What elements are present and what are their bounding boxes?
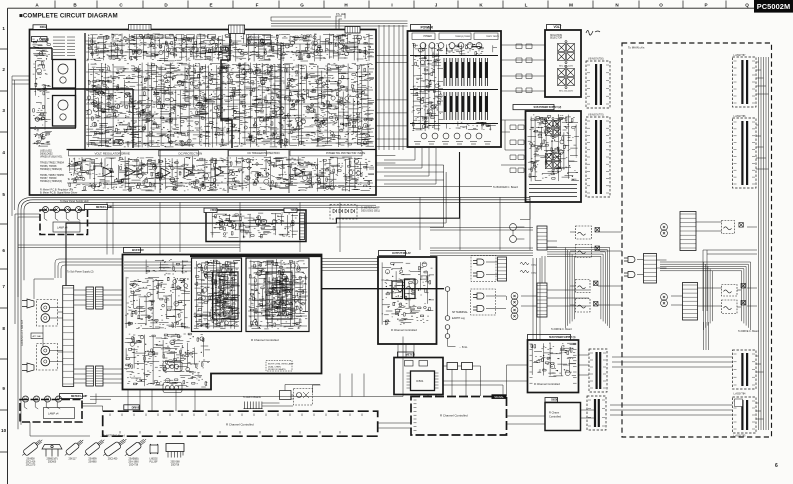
SUB POWER SUPPLY (1) label — [528, 335, 571, 340]
legend package drawing 6 (TO-3P) — [123, 437, 148, 459]
phone jack plug J2 — [22, 363, 34, 372]
wire: signal box risers — [398, 344, 414, 358]
drive sub-header VOLT REGULATOR DRIVE — [69, 151, 121, 156]
drive sub-header DC TRIGGER PROTECTION — [229, 151, 267, 156]
drive left bold sub-block TR605 stage — [53, 96, 76, 127]
relay-driver label FB501 — [204, 208, 217, 213]
wire: drive to power interconnect verticals — [379, 25, 403, 150]
svg-text:DC PROTECTION: DC PROTECTION — [179, 151, 203, 155]
wire: power to volt selector — [501, 45, 545, 91]
input logic cluster 2 dashed box — [471, 289, 496, 315]
svg-text:2SC2275: 2SC2275 — [26, 464, 36, 466]
buffer top heavy rail — [190, 255, 321, 258]
svg-text:P.S. LED: P.S. LED — [336, 13, 346, 16]
wire: buffer input bundle — [124, 262, 191, 271]
drive left bold sub-block TR601 stage — [53, 60, 76, 89]
svg-text:BUFFER: BUFFER — [132, 248, 144, 252]
bottom DRIVE block outline — [103, 411, 378, 436]
wire: terminal drops — [448, 291, 456, 346]
svg-text:5: 5 — [2, 192, 5, 197]
wire harness loop around right relay cluster — [660, 262, 751, 330]
connector CN L ASSY786 — [733, 118, 757, 188]
wire: bottom rail runs — [82, 337, 403, 412]
terminal strip mid lower — [537, 283, 547, 317]
drive inner row of trimmer label boxes — [134, 35, 216, 39]
svg-text:METER LAMP: METER LAMP — [71, 394, 88, 398]
svg-text:100Ω: 100Ω — [531, 265, 537, 267]
svg-text:PLL30F: PLL30F — [149, 461, 158, 463]
OUTPUT RELAY block outline — [378, 257, 437, 344]
legend package drawing 7 (photo coupler) — [150, 444, 158, 454]
svg-text:D501 D502 (SEL): D501 D502 (SEL) — [361, 209, 380, 212]
drive sub-header DC PROTECTION — [159, 151, 199, 156]
bottom meter lamp inner box — [44, 408, 75, 419]
wire: buffer to bottom drive drops — [128, 390, 195, 412]
BUFFER label — [124, 248, 141, 253]
terminal strip mid upper — [537, 226, 547, 250]
bottom DRIVE label — [124, 405, 140, 410]
terminal strip right B — [683, 283, 698, 321]
METER LAMP bottom block — [20, 400, 82, 423]
transformer T782 upper — [661, 224, 668, 237]
svg-text:To DRIVE C. Board: To DRIVE C. Board — [738, 330, 759, 333]
wire: mid feed rungs — [376, 165, 444, 180]
wire: bus drops to buffer and relays — [180, 202, 340, 252]
XLR plug P1 — [473, 259, 484, 265]
input jack sockets pair 2 — [41, 346, 50, 355]
XLR plug P6 — [624, 272, 635, 278]
SUB POWER SUPPLY (1) block outline — [528, 340, 579, 393]
svg-text:1: 1 — [2, 26, 5, 31]
svg-text:2SC1416: 2SC1416 — [26, 461, 36, 463]
METER LAMP upper label — [85, 205, 108, 210]
wire: bundle taps to ASSY786 — [756, 125, 769, 169]
power bar-region top strip texture — [446, 44, 497, 55]
svg-text:100Ω: 100Ω — [531, 273, 537, 275]
svg-text:8: 8 — [2, 326, 5, 331]
legend package drawing 5 (TO-220) — [101, 436, 128, 458]
wire: meter connections — [443, 366, 481, 397]
svg-text:2SA-1960: 2SA-1960 — [128, 460, 139, 463]
wire: plug harness — [486, 241, 589, 309]
wire: long feed into buffer top — [18, 245, 240, 248]
OUTPUT RELAY label — [379, 251, 406, 256]
svg-text:B: Meter P.C.B. Signal Meter D: B: Meter P.C.B. Signal Meter Driver — [40, 191, 78, 194]
diode aux block outline — [545, 403, 581, 431]
comb connector on drive top border right — [345, 27, 360, 34]
connector CN diode right — [587, 396, 606, 430]
svg-text:VOLT. REGULATOR DRIVE: VOLT. REGULATOR DRIVE — [95, 151, 130, 155]
svg-text:M: M — [569, 3, 573, 8]
phone jack plug J1 — [22, 299, 34, 308]
POWER block outline — [408, 31, 502, 147]
svg-text:Controlled: Controlled — [549, 415, 561, 419]
connector CN L ASSY785 — [733, 397, 757, 433]
svg-text:Q: Q — [745, 3, 749, 8]
op-amp IC656 — [295, 168, 304, 177]
op-amp IC653 — [161, 168, 170, 177]
wire: sub2 feeds — [501, 120, 525, 165]
svg-text:2SD756: 2SD756 — [171, 464, 180, 466]
buffer part-number note box — [266, 361, 292, 372]
svg-text:L:ASSY787: L:ASSY787 — [734, 54, 747, 57]
wire: bottom meter lamp link — [30, 394, 96, 437]
wire: meter lamp to margin — [15, 214, 40, 324]
model name plate PC5002M — [754, 0, 793, 13]
svg-text:R Channel Controlled: R Channel Controlled — [391, 328, 417, 332]
svg-text:TR661(F),TR663(F): TR661(F),TR663(F) — [40, 180, 62, 183]
buffer relay coil component 1 — [163, 362, 182, 372]
svg-text:2SD-588: 2SD-588 — [170, 462, 180, 464]
svg-text:ATT·BAL: ATT·BAL — [33, 335, 43, 338]
svg-text:9: 9 — [2, 386, 5, 391]
svg-text:SELECTOR: SELECTOR — [550, 38, 563, 40]
SIGNAL block outline — [411, 397, 507, 436]
svg-text:SEL 220-240V: SEL 220-240V — [559, 91, 574, 93]
output relay coil boxes — [392, 281, 403, 299]
drive regulator band texture — [67, 156, 374, 191]
svg-text:GROUND LIFT SWITCH: GROUND LIFT SWITCH — [21, 319, 24, 346]
comb connector on drive top border left — [129, 25, 152, 31]
svg-text:METER: METER — [406, 353, 415, 357]
capacitor stack between power and volt blocks — [516, 44, 532, 93]
meter IC501 box — [411, 371, 435, 391]
svg-text:6: 6 — [2, 248, 5, 253]
svg-text:F: F — [256, 3, 259, 8]
drive bold bus segments — [30, 48, 133, 148]
wire: meter to sub1 links — [443, 381, 528, 397]
L-channel dashed enclosure — [622, 43, 772, 437]
svg-text:R Channel Controlled: R Channel Controlled — [251, 338, 279, 342]
XLR plug P2 — [473, 272, 484, 278]
svg-text:L:ASSY784: L:ASSY784 — [734, 393, 747, 396]
meter external boxes — [447, 363, 458, 370]
svg-text:TR551: TR551 — [291, 209, 298, 212]
legend package drawing 1 (TO-92) — [20, 437, 44, 458]
wire: drive left margin taps — [12, 76, 30, 216]
bridge rectifier D812 — [545, 151, 560, 172]
svg-text:METER LAMP: METER LAMP — [96, 205, 113, 209]
terminal strip right A — [644, 254, 657, 284]
svg-text:LN0202: LN0202 — [149, 459, 158, 461]
svg-text:To DRIVE C. Board: To DRIVE C. Board — [551, 328, 572, 331]
wire: bundle taps to ASSY787 — [756, 62, 769, 94]
zigzag resistors at gate outputs — [520, 262, 529, 273]
wire: heavy stepped supply feed — [66, 152, 460, 286]
wire: top bus into POWER block — [271, 21, 408, 26]
buffer lower texture — [124, 333, 210, 387]
protector relay RY12 — [576, 245, 592, 258]
svg-text:SUB POWER SUPPLY (1): SUB POWER SUPPLY (1) — [549, 336, 576, 339]
op-amp IC654 — [184, 168, 193, 177]
svg-text:L:ASSY786: L:ASSY786 — [734, 115, 747, 118]
svg-text:ISOLATION: ISOLATION — [550, 34, 562, 37]
svg-text:FB501: FB501 — [211, 209, 218, 212]
svg-text:← B.GL: ← B.GL — [459, 346, 468, 349]
thermal dashed box — [294, 389, 313, 406]
drive trimmer box row 2 — [176, 48, 228, 53]
bottom drive pin dashes — [110, 414, 362, 434]
svg-text:TR851(F) TR853: TR851(F) TR853 — [455, 36, 471, 38]
wire: thermal links — [262, 385, 321, 407]
wire: secondary stepped feed — [336, 165, 446, 227]
wire: buffer to output relay bundle — [322, 259, 379, 271]
buffer hybrid sub-block B texture — [248, 259, 308, 329]
wire: power bottom stepped feeds — [384, 148, 436, 184]
svg-text:DRIVE: DRIVE — [132, 405, 140, 409]
power header label boxes — [412, 33, 435, 40]
comb connector on drive top border mid — [229, 25, 245, 34]
svg-text:R Channel Controlled: R Channel Controlled — [440, 414, 468, 418]
wire: strip C feed — [612, 357, 733, 367]
METER block outline — [394, 358, 443, 395]
drive interior texture: input stage band — [85, 33, 374, 61]
svg-text:2SD600: 2SD600 — [48, 461, 57, 463]
svg-text:DIODE: DIODE — [551, 400, 558, 402]
svg-text:To Sub Power Supply (2): To Sub Power Supply (2) — [67, 271, 94, 274]
wire: right riser into strip C — [704, 322, 709, 350]
buffer left input texture — [146, 259, 188, 275]
svg-text:E: E — [209, 3, 212, 8]
drive sub-header THERMAL PROTECTOR — [290, 151, 362, 156]
wire: buffer bottom jog — [210, 373, 212, 375]
wire: To BUFFER C Board feed — [320, 186, 492, 188]
svg-text:SUB POWER SUPPLY (2): SUB POWER SUPPLY (2) — [534, 106, 562, 109]
input terminal strip 1 — [498, 257, 507, 281]
svg-text:To Rear Panel Supply LED: To Rear Panel Supply LED — [60, 200, 89, 203]
svg-text:O: O — [659, 3, 663, 8]
svg-text:DC TRIGGER PROTECTION: DC TRIGGER PROTECTION — [248, 151, 280, 155]
wire: bottom of drive long box to right — [378, 416, 545, 428]
svg-text:DR×2: DR×2 — [40, 25, 47, 29]
VOLTAGE SELECTOR block outline — [545, 30, 581, 97]
DRIVE label — [32, 37, 48, 42]
meter lamp sockets — [43, 207, 49, 213]
svg-text:G: G — [300, 3, 304, 8]
power bar-region bottom strip texture — [446, 121, 496, 130]
protector relay RY72 — [722, 300, 738, 314]
svg-text:2: 2 — [2, 67, 5, 72]
D meter lamp diode dashed box — [330, 205, 357, 220]
wires: input harness to buffer upper — [50, 308, 63, 319]
wire: drive-power link stubs — [375, 55, 407, 163]
wire: left margin loop returns — [18, 197, 33, 429]
sub2 filter rails — [529, 185, 577, 197]
wire: relay cluster links — [570, 232, 622, 305]
legend package drawing 4 (TO-92L) — [82, 437, 106, 458]
meter aux boxes — [405, 361, 414, 367]
power bottom part labels — [414, 142, 491, 145]
wire: meter LED feed at top — [336, 14, 345, 30]
svg-text:10: 10 — [1, 428, 7, 433]
speaker terminal posts — [445, 287, 450, 292]
bridge rectifier D801 — [558, 41, 575, 64]
XLR plug P3 — [473, 293, 484, 299]
input attenuator box ATT — [31, 333, 43, 339]
BUFFER block outline (L-shape) — [123, 255, 322, 390]
meter lamp inner box — [53, 222, 80, 232]
svg-text:To BUFFER C. Board: To BUFFER C. Board — [493, 185, 518, 189]
svg-text:7: 7 — [2, 284, 5, 289]
svg-text:2SD-758: 2SD-758 — [129, 464, 139, 466]
wire: bundle taps to ASSY784/785 — [756, 356, 764, 419]
input jack sockets pair 1 — [41, 303, 50, 312]
wires: input risers — [34, 279, 63, 352]
svg-text:R Channel Controlled: R Channel Controlled — [534, 382, 560, 386]
power output device array row 2 — [444, 92, 488, 120]
protector relay RY13 — [576, 280, 591, 293]
buffer hybrid B core texture — [268, 274, 291, 317]
wire: sub1 links — [507, 355, 595, 418]
XLR plug P4 — [473, 306, 484, 312]
wire harness loop around mid relay cluster — [547, 248, 610, 329]
harness connector blocks upper — [86, 287, 94, 309]
DRIVE block outline — [30, 30, 377, 196]
svg-text:SP TERMINAL: SP TERMINAL — [452, 311, 469, 314]
buffer hybrid sub-block A outline — [192, 258, 242, 332]
METER LAMP bottom label — [60, 394, 83, 399]
small thermal box — [280, 391, 292, 400]
wire: buffer-bottom to signal risers — [340, 374, 364, 397]
svg-text:2SA999: 2SA999 — [88, 458, 97, 461]
drive inner divider above regulator band — [67, 33, 377, 150]
relay-driver label TR551 — [284, 208, 297, 213]
svg-text:VOLT: VOLT — [554, 25, 562, 29]
svg-text:VR650 (F) BLK/YEL: VR650 (F) BLK/YEL — [40, 156, 63, 159]
svg-text:2SB631(F): 2SB631(F) — [46, 459, 57, 461]
SUB POWER SUPPLY (2) block outline — [526, 111, 582, 202]
METER label — [398, 352, 414, 357]
power top transistor row — [420, 43, 426, 49]
svg-text:IC501: IC501 — [416, 379, 424, 383]
wire: drops into buffer top — [107, 202, 160, 254]
svg-text:DUAL CHNN: DUAL CHNN — [268, 365, 281, 368]
svg-text:PC5002M: PC5002M — [757, 2, 791, 11]
SUB POWER SUPPLY (2) label — [513, 105, 554, 110]
input jack pair 2 frame — [37, 344, 58, 371]
DRIVE x2 tag — [33, 25, 47, 30]
POWER label — [411, 25, 431, 31]
svg-text:2SA960: 2SA960 — [88, 460, 97, 463]
svg-text:TR871 TR873: TR871 TR873 — [486, 36, 499, 38]
svg-text:2SK117: 2SK117 — [68, 459, 77, 461]
protection relay-driver block outline — [206, 210, 306, 242]
svg-text:WORK W. BEATS: WORK W. BEATS — [268, 368, 286, 371]
power output device array row 1 — [444, 58, 488, 86]
svg-text:2SC1400: 2SC1400 — [108, 459, 118, 461]
svg-text:J: J — [435, 3, 438, 8]
legend package drawing 2 (TO-126 heatsink) — [42, 445, 62, 457]
drive lower band dividers — [160, 150, 289, 193]
wire bus from meter relay area to mid cluster — [430, 228, 533, 256]
svg-text:I: I — [391, 3, 392, 8]
relay driver transistors — [219, 221, 224, 226]
wires: input harness to buffer lower — [50, 351, 63, 362]
DIODE label — [545, 398, 558, 403]
wire: drive output buses below block — [33, 197, 530, 202]
input jack pair 1 frame — [37, 300, 58, 327]
connector CN V.B ASSY (750) upper — [586, 61, 610, 108]
SIGNAL label — [492, 394, 507, 399]
wire: right cluster risers — [703, 250, 757, 311]
buffer hybrid sub-block B outline — [246, 258, 309, 332]
VOLT label — [547, 25, 561, 30]
buffer hybrid A core texture — [214, 274, 237, 317]
drive bold column divider — [280, 45, 282, 148]
svg-text:R Channel Controlled: R Channel Controlled — [226, 423, 254, 427]
connector CN sub1 right — [589, 349, 607, 392]
wire: strip D feed — [610, 405, 733, 415]
svg-text:BOTH CHNL VIEW LAMP: BOTH CHNL VIEW LAMP — [268, 363, 294, 366]
svg-text:■COMPLETE CIRCUIT DIAGRAM: ■COMPLETE CIRCUIT DIAGRAM — [19, 13, 118, 20]
drive left parts label rows — [53, 37, 75, 56]
right vertical wire bundle — [759, 57, 769, 430]
svg-text:3: 3 — [2, 108, 5, 113]
drive interior texture: left strip — [32, 39, 52, 146]
harness connector blocks lower — [86, 366, 94, 386]
svg-text:LAMP x4: LAMP x4 — [48, 412, 59, 416]
protector relay RY73 upper — [722, 221, 735, 234]
capacitor stack left of sub2 — [510, 125, 524, 173]
line transformer T502 — [511, 307, 518, 320]
line transformer T501 — [511, 293, 518, 306]
svg-text:R Chann: R Chann — [549, 411, 560, 415]
wire: sub supply sweep — [55, 259, 123, 278]
svg-text:To MAIN ch’s: To MAIN ch’s — [628, 46, 645, 50]
comb connector above bottom drive — [244, 402, 263, 409]
connector CN L ASSY784 — [733, 350, 757, 389]
wire: cluster riser bundle — [542, 256, 545, 283]
input connector bar — [63, 286, 74, 387]
protector relay RY14 — [576, 299, 591, 313]
bottom meter lamp sockets — [23, 396, 29, 402]
power row separator rails — [410, 56, 498, 124]
connector CN V.B ASSY (770) lower — [586, 117, 610, 197]
svg-text:POWER SW. PROTECTOR / MUTE: POWER SW. PROTECTOR / MUTE — [326, 151, 366, 155]
line transformer T781 — [661, 294, 668, 307]
drive interior texture: main voltage-amp band — [85, 63, 374, 148]
bridge rectifier D802 — [558, 66, 575, 89]
svg-text:POWER: POWER — [421, 26, 434, 30]
wire: heavy speaker feed — [322, 288, 445, 290]
op-amp IC655 — [215, 168, 224, 177]
regulator transistors below sub2 — [510, 224, 517, 231]
relay driver hatched connector — [300, 213, 305, 240]
svg-text:POWER: POWER — [424, 36, 433, 38]
input logic cluster 1 dashed box — [471, 256, 496, 282]
XLR plug P5 — [624, 257, 635, 263]
svg-text:2SA958: 2SA958 — [26, 458, 35, 461]
op-amp IC652 — [126, 167, 135, 176]
svg-text:P: P — [704, 3, 707, 8]
wire: drops to sub power supply 1 — [533, 258, 540, 340]
svg-text:SEL 100-120V: SEL 100-120V — [559, 66, 574, 68]
protector relay RY71 — [722, 285, 738, 297]
wire: extra drive output buses — [85, 205, 376, 207]
svg-text:OUTPUT RELAY: OUTPUT RELAY — [392, 251, 411, 255]
protector relay RY11 — [576, 226, 592, 239]
bridge rectifier D811 — [545, 118, 560, 139]
handwritten 4 ohm note — [586, 31, 600, 36]
legend package drawing 3 (TO-92 angled) — [63, 438, 85, 458]
connector CN L ASSY787 — [733, 57, 757, 107]
svg-text:2SA58(B): 2SA58(B) — [129, 458, 139, 461]
drive sub-header CURRENT LIMITER — [247, 35, 271, 40]
METER LAMP upper block — [40, 210, 88, 235]
svg-text:L:ASSY785: L:ASSY785 — [734, 435, 747, 438]
svg-text:EARTH Lug: EARTH Lug — [452, 317, 465, 320]
svg-text:LAMP x4: LAMP x4 — [57, 226, 68, 230]
